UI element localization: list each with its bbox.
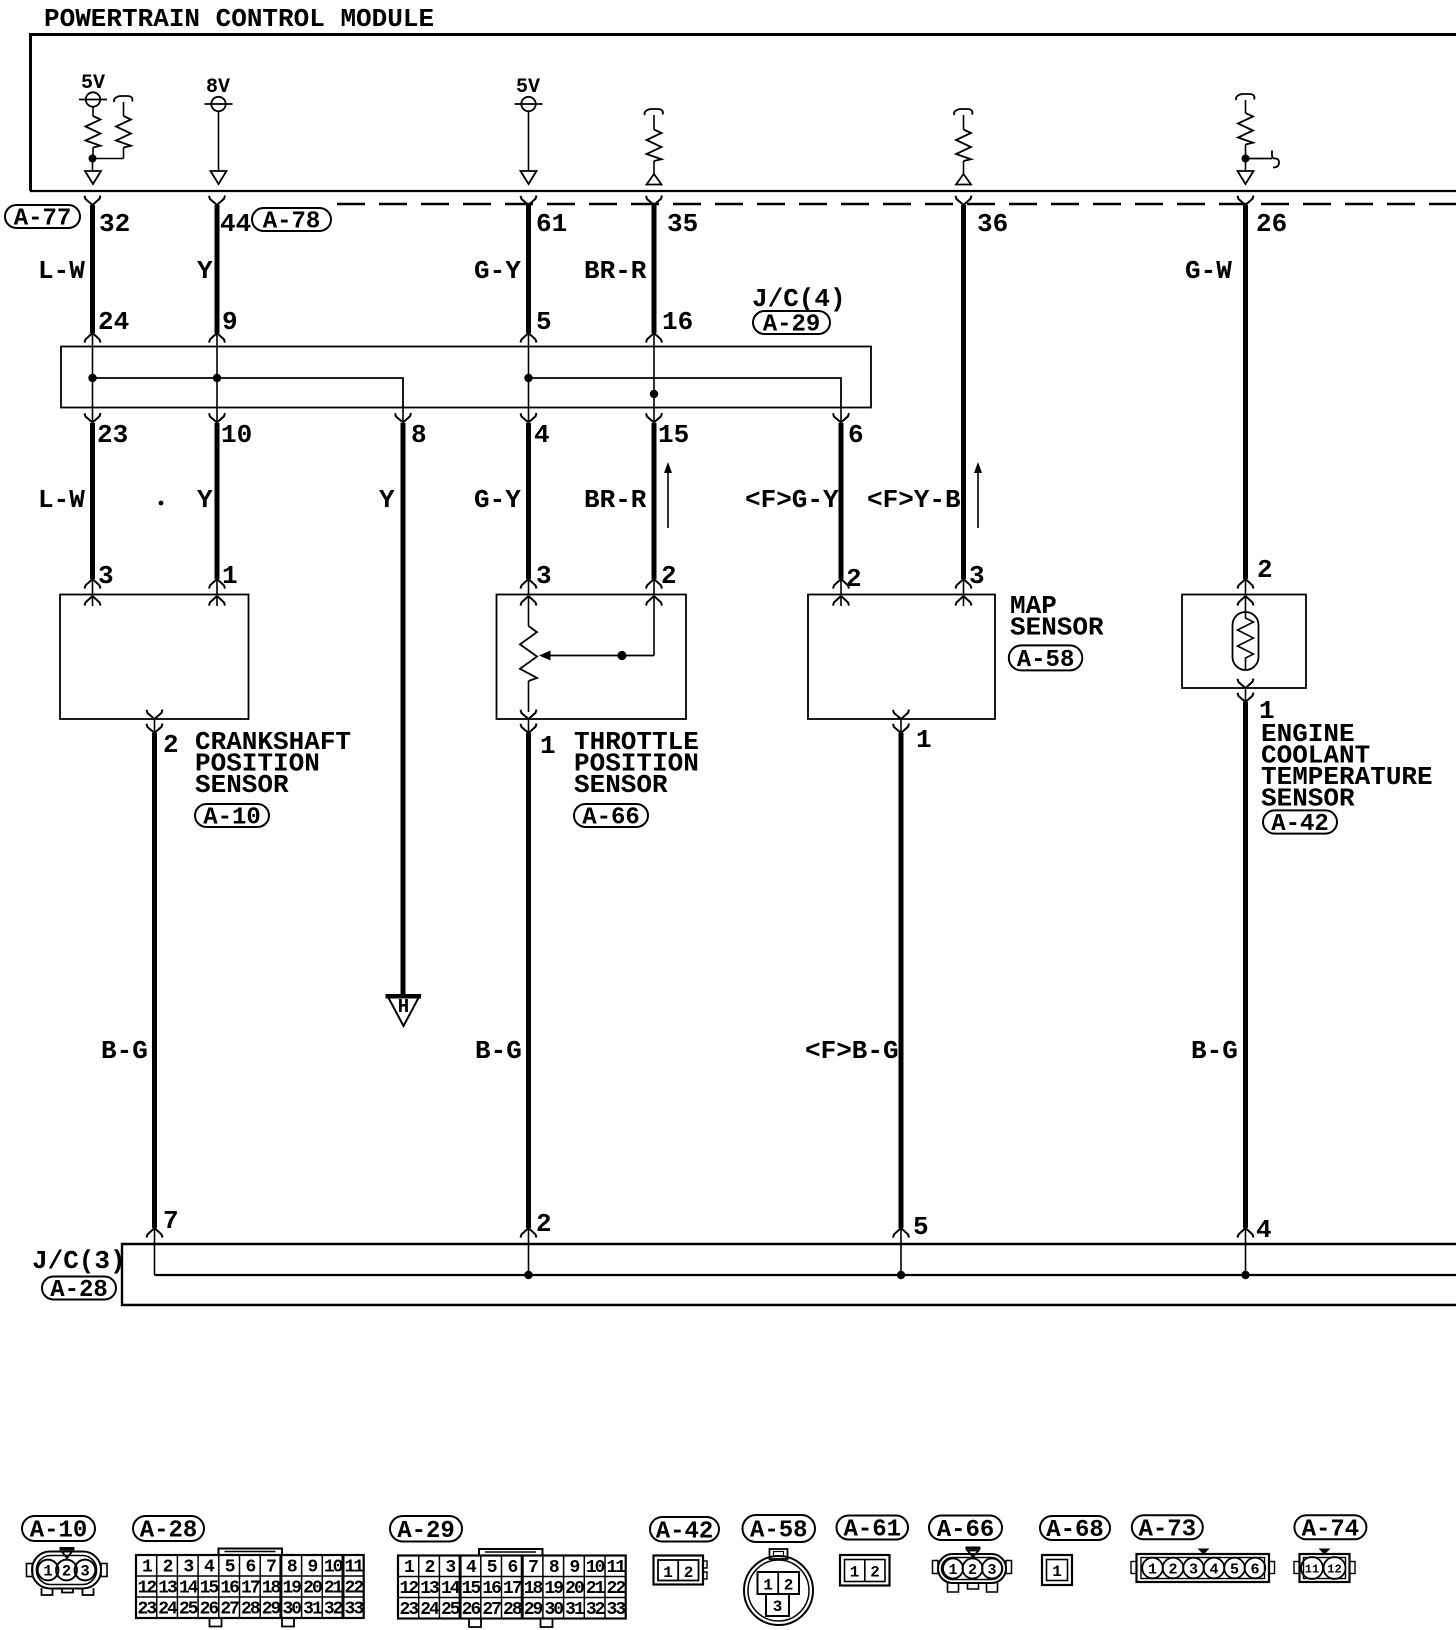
svg-text:5: 5 xyxy=(225,1558,235,1578)
svg-text:SENSOR: SENSOR xyxy=(1010,613,1104,643)
svg-text:2: 2 xyxy=(846,564,862,594)
svg-text:B-G: B-G xyxy=(475,1036,522,1066)
svg-text:4: 4 xyxy=(204,1558,215,1578)
svg-text:10: 10 xyxy=(324,1558,343,1578)
svg-text:30: 30 xyxy=(282,1600,301,1620)
svg-text:30: 30 xyxy=(544,1600,563,1620)
svg-text:10: 10 xyxy=(586,1558,605,1578)
svg-text:15: 15 xyxy=(200,1579,219,1599)
svg-text:29: 29 xyxy=(524,1600,543,1620)
svg-text:3: 3 xyxy=(445,1558,455,1578)
svg-text:14: 14 xyxy=(179,1579,199,1599)
svg-text:12: 12 xyxy=(400,1579,419,1599)
svg-text:8: 8 xyxy=(411,420,427,450)
svg-text:9: 9 xyxy=(222,307,238,337)
svg-text:A-73: A-73 xyxy=(1138,1516,1196,1543)
svg-text:Y: Y xyxy=(197,485,213,515)
svg-text:25: 25 xyxy=(441,1600,460,1620)
svg-text:6: 6 xyxy=(245,1558,255,1578)
svg-text:20: 20 xyxy=(565,1579,584,1599)
svg-text:5V: 5V xyxy=(516,76,540,99)
svg-text:17: 17 xyxy=(241,1579,260,1599)
svg-text:28: 28 xyxy=(503,1600,522,1620)
svg-text:POWERTRAIN CONTROL MODULE: POWERTRAIN CONTROL MODULE xyxy=(44,4,434,34)
svg-text:5: 5 xyxy=(913,1212,929,1242)
svg-text:14: 14 xyxy=(441,1579,461,1599)
svg-text:BR-R: BR-R xyxy=(584,485,647,515)
svg-text:A-78: A-78 xyxy=(263,209,321,236)
svg-text:J/C(3): J/C(3) xyxy=(32,1246,126,1276)
svg-text:11: 11 xyxy=(345,1558,365,1578)
svg-text:2: 2 xyxy=(968,1562,977,1579)
svg-text:2: 2 xyxy=(870,1564,880,1582)
svg-text:2: 2 xyxy=(661,561,677,591)
svg-text:36: 36 xyxy=(977,209,1008,239)
svg-text:15: 15 xyxy=(658,420,689,450)
svg-text:8: 8 xyxy=(549,1558,559,1578)
svg-text:29: 29 xyxy=(262,1600,281,1620)
svg-text:L-W: L-W xyxy=(38,256,85,286)
svg-text:9: 9 xyxy=(308,1558,318,1578)
svg-text:23: 23 xyxy=(138,1600,157,1620)
svg-text:A-58: A-58 xyxy=(750,1518,808,1545)
svg-text:SENSOR: SENSOR xyxy=(574,770,668,800)
svg-text:B-G: B-G xyxy=(1191,1036,1238,1066)
svg-text:A-10: A-10 xyxy=(203,805,261,832)
svg-text:7: 7 xyxy=(163,1206,179,1236)
svg-text:Y: Y xyxy=(379,485,395,515)
svg-text:1: 1 xyxy=(916,725,932,755)
svg-text:A-74: A-74 xyxy=(1302,1516,1360,1543)
svg-text:G-Y: G-Y xyxy=(474,485,521,515)
svg-text:13: 13 xyxy=(158,1579,177,1599)
svg-text:10: 10 xyxy=(221,420,252,450)
svg-text:A-10: A-10 xyxy=(30,1518,88,1545)
svg-text:4: 4 xyxy=(1256,1215,1272,1245)
svg-text:24: 24 xyxy=(420,1600,440,1620)
svg-text:2: 2 xyxy=(1168,1562,1177,1579)
svg-text:32: 32 xyxy=(586,1600,605,1620)
svg-text:A-66: A-66 xyxy=(937,1517,995,1544)
svg-text:12: 12 xyxy=(138,1579,157,1599)
svg-text:A-42: A-42 xyxy=(1271,811,1329,838)
svg-text:32: 32 xyxy=(324,1600,343,1620)
svg-text:7: 7 xyxy=(266,1558,276,1578)
svg-text:Y: Y xyxy=(197,256,213,286)
svg-text:2: 2 xyxy=(163,1558,173,1578)
svg-text:24: 24 xyxy=(158,1600,178,1620)
svg-text:3: 3 xyxy=(773,1598,783,1616)
svg-text:A-77: A-77 xyxy=(14,206,72,233)
svg-text:G-Y: G-Y xyxy=(474,256,521,286)
svg-text:A-28: A-28 xyxy=(50,1277,108,1304)
svg-text:SENSOR: SENSOR xyxy=(195,770,289,800)
svg-text:6: 6 xyxy=(848,420,864,450)
svg-text:H: H xyxy=(398,996,409,1018)
svg-text:11: 11 xyxy=(1305,1563,1319,1577)
svg-text:32: 32 xyxy=(99,209,130,239)
svg-text:28: 28 xyxy=(241,1600,260,1620)
svg-text:<F>Y-B: <F>Y-B xyxy=(867,485,961,515)
svg-text:16: 16 xyxy=(662,307,693,337)
svg-text:7: 7 xyxy=(528,1558,538,1578)
svg-text:1: 1 xyxy=(142,1558,153,1578)
svg-text:2: 2 xyxy=(425,1558,435,1578)
svg-text:61: 61 xyxy=(536,209,567,239)
svg-text:25: 25 xyxy=(179,1600,198,1620)
svg-text:2: 2 xyxy=(536,1209,552,1239)
svg-text:16: 16 xyxy=(482,1579,501,1599)
svg-text:23: 23 xyxy=(97,420,128,450)
svg-text:1: 1 xyxy=(948,1562,957,1579)
svg-text:9: 9 xyxy=(570,1558,580,1578)
svg-text:21: 21 xyxy=(586,1579,606,1599)
svg-text:1: 1 xyxy=(850,1564,860,1582)
svg-text:1: 1 xyxy=(404,1558,415,1578)
svg-text:5: 5 xyxy=(536,307,552,337)
svg-text:2: 2 xyxy=(62,1563,71,1581)
svg-text:A-42: A-42 xyxy=(656,1518,714,1545)
svg-text:44: 44 xyxy=(220,209,251,239)
svg-text:18: 18 xyxy=(524,1579,543,1599)
svg-text:15: 15 xyxy=(462,1579,481,1599)
svg-text:2: 2 xyxy=(784,1577,794,1595)
svg-text:24: 24 xyxy=(98,307,129,337)
svg-text:A-68: A-68 xyxy=(1046,1517,1104,1544)
svg-text:4: 4 xyxy=(534,420,550,450)
svg-text:3: 3 xyxy=(80,1563,89,1581)
svg-text:2: 2 xyxy=(684,1564,694,1582)
svg-text:3: 3 xyxy=(987,1562,996,1579)
svg-text:1: 1 xyxy=(540,731,556,761)
svg-text:3: 3 xyxy=(183,1558,193,1578)
svg-text:SENSOR: SENSOR xyxy=(1261,784,1355,814)
svg-text:26: 26 xyxy=(462,1600,481,1620)
svg-text:1: 1 xyxy=(763,1577,773,1595)
svg-text:3: 3 xyxy=(1189,1562,1198,1579)
svg-text:A-58: A-58 xyxy=(1017,647,1075,674)
svg-text:L-W: L-W xyxy=(38,485,85,515)
svg-text:<F>G-Y: <F>G-Y xyxy=(745,485,839,515)
svg-text:17: 17 xyxy=(503,1579,522,1599)
svg-text:5: 5 xyxy=(1230,1562,1239,1579)
svg-text:21: 21 xyxy=(324,1579,344,1599)
svg-text:B-G: B-G xyxy=(101,1036,148,1066)
svg-text:1: 1 xyxy=(43,1563,52,1581)
svg-text:23: 23 xyxy=(400,1600,419,1620)
svg-text:2: 2 xyxy=(163,730,179,760)
svg-text:19: 19 xyxy=(544,1579,563,1599)
svg-text:33: 33 xyxy=(607,1600,626,1620)
svg-text:5: 5 xyxy=(487,1558,497,1578)
svg-text:6: 6 xyxy=(1250,1562,1259,1579)
svg-text:8V: 8V xyxy=(206,76,230,99)
svg-text:12: 12 xyxy=(1327,1563,1341,1577)
svg-text:A-29: A-29 xyxy=(763,312,821,339)
svg-text:27: 27 xyxy=(482,1600,501,1620)
svg-text:33: 33 xyxy=(345,1600,364,1620)
svg-text:31: 31 xyxy=(303,1600,323,1620)
svg-text:4: 4 xyxy=(1209,1562,1218,1579)
svg-text:18: 18 xyxy=(262,1579,281,1599)
svg-text:1: 1 xyxy=(1148,1562,1157,1579)
svg-text:2: 2 xyxy=(1257,555,1273,585)
svg-text:A-29: A-29 xyxy=(397,1518,455,1545)
svg-text:20: 20 xyxy=(303,1579,322,1599)
svg-text:13: 13 xyxy=(420,1579,439,1599)
svg-text:35: 35 xyxy=(667,209,698,239)
svg-text:A-66: A-66 xyxy=(582,805,640,832)
svg-text:<F>B-G: <F>B-G xyxy=(805,1036,899,1066)
svg-text:26: 26 xyxy=(1256,209,1287,239)
svg-text:G-W: G-W xyxy=(1185,256,1232,286)
svg-text:27: 27 xyxy=(220,1600,239,1620)
svg-text:16: 16 xyxy=(220,1579,239,1599)
svg-text:22: 22 xyxy=(607,1579,626,1599)
svg-text:11: 11 xyxy=(607,1558,627,1578)
svg-text:J/C(4): J/C(4) xyxy=(752,284,846,314)
svg-text:4: 4 xyxy=(466,1558,477,1578)
svg-text:31: 31 xyxy=(565,1600,585,1620)
svg-text:A-28: A-28 xyxy=(140,1518,198,1545)
svg-text:1: 1 xyxy=(1052,1563,1062,1581)
svg-text:19: 19 xyxy=(282,1579,301,1599)
svg-text:BR-R: BR-R xyxy=(584,256,647,286)
svg-text:6: 6 xyxy=(507,1558,517,1578)
svg-text:22: 22 xyxy=(345,1579,364,1599)
svg-text:1: 1 xyxy=(663,1564,673,1582)
svg-text:26: 26 xyxy=(200,1600,219,1620)
svg-text:8: 8 xyxy=(287,1558,297,1578)
svg-text:A-61: A-61 xyxy=(843,1517,901,1544)
svg-text:3: 3 xyxy=(536,561,552,591)
